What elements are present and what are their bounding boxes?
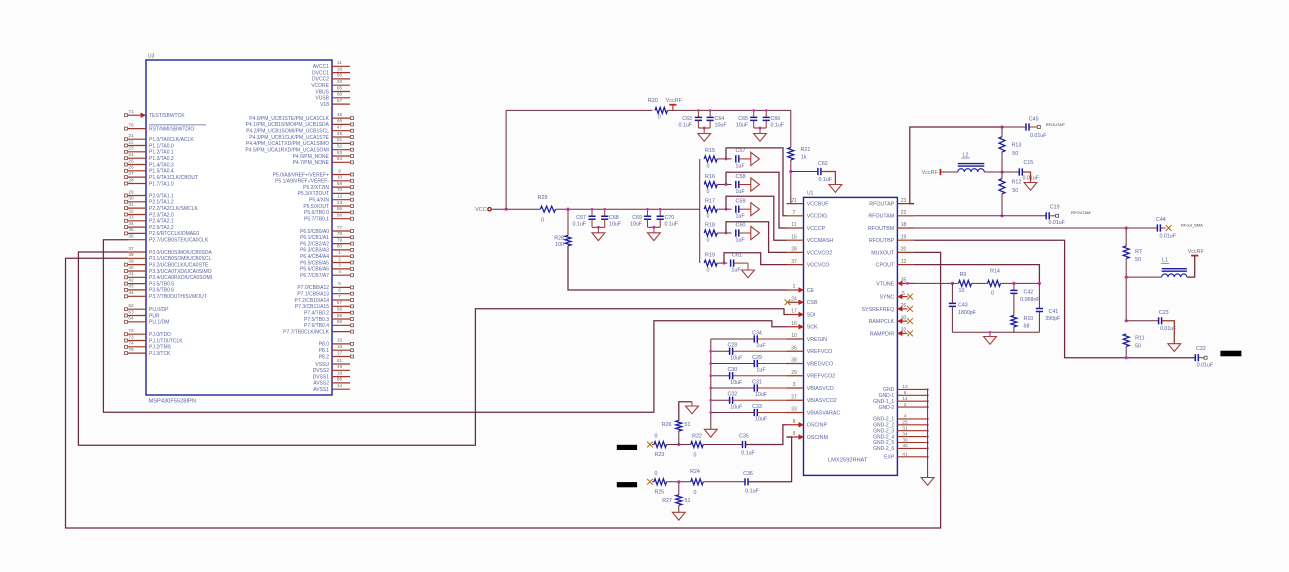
svg-text:42: 42 — [128, 277, 134, 282]
svg-text:0: 0 — [707, 268, 710, 274]
svg-text:34: 34 — [902, 431, 908, 436]
svg-text:29: 29 — [128, 189, 134, 194]
svg-text:15: 15 — [337, 338, 343, 343]
svg-text:29: 29 — [791, 370, 797, 376]
svg-text:P4.3/PM_UCB1CLK/PM_UCA1STE: P4.3/PM_UCB1CLK/PM_UCA1STE — [249, 135, 329, 141]
svg-text:P4.7/PM_NONE: P4.7/PM_NONE — [293, 160, 330, 166]
svg-text:67: 67 — [337, 98, 343, 103]
svg-text:P2.4/TA2.1: P2.4/TA2.1 — [149, 219, 174, 225]
svg-text:C35: C35 — [739, 434, 749, 440]
svg-text:VBUS: VBUS — [315, 89, 329, 95]
svg-text:0: 0 — [655, 434, 658, 440]
wire R26 to ground — [679, 402, 692, 421]
wire P3.1 to MUXOUT net — [66, 252, 941, 528]
VCC bypass bus vertical — [699, 159, 701, 263]
MCU U3 MSP430F5528IPN — [125, 54, 354, 405]
svg-text:39: 39 — [902, 437, 908, 442]
wire C63 C64 ground join — [698, 127, 710, 129]
svg-text:45: 45 — [337, 112, 343, 117]
svg-text:73: 73 — [128, 334, 134, 339]
svg-text:P5.6/TB0.0: P5.6/TB0.0 — [304, 210, 329, 216]
svg-text:GND-2_6: GND-2_6 — [873, 446, 894, 452]
power flag VccRF top — [672, 105, 674, 111]
svg-text:TEST/SBWTCK: TEST/SBWTCK — [149, 113, 185, 119]
svg-text:1: 1 — [338, 250, 341, 255]
svg-text:R18: R18 — [705, 222, 715, 228]
svg-text:35: 35 — [128, 227, 134, 232]
ground rotated — [751, 152, 760, 165]
svg-text:53: 53 — [337, 150, 343, 155]
svg-text:76: 76 — [128, 122, 134, 127]
wire RFOUTAM — [914, 215, 1046, 217]
svg-text:10uF: 10uF — [755, 392, 768, 398]
resistor R25 0 — [652, 481, 654, 483]
svg-text:P7.0/CB8/A12: P7.0/CB8/A12 — [297, 285, 329, 291]
ground — [759, 128, 761, 134]
pad RFOUTAM — [1056, 214, 1059, 217]
svg-text:10uF: 10uF — [730, 404, 743, 410]
svg-text:P7.6/TB0.4: P7.6/TB0.4 — [304, 323, 329, 329]
svg-text:22: 22 — [128, 139, 134, 144]
svg-text:C65: C65 — [738, 116, 748, 122]
svg-text:R29: R29 — [538, 195, 548, 201]
svg-text:C29: C29 — [752, 355, 762, 361]
svg-text:50: 50 — [337, 73, 343, 78]
svg-text:C44: C44 — [1156, 217, 1166, 223]
svg-text:C15: C15 — [1024, 160, 1034, 166]
connector bar RFout — [1220, 351, 1241, 357]
svg-text:5: 5 — [338, 281, 341, 286]
ground — [829, 185, 842, 193]
svg-text:11: 11 — [337, 60, 342, 65]
svg-text:P6.3/CB3/A3: P6.3/CB3/A3 — [300, 248, 329, 254]
svg-text:C68: C68 — [609, 215, 619, 221]
svg-text:C41: C41 — [1049, 309, 1059, 315]
svg-text:1uF: 1uF — [731, 268, 741, 274]
junction CPOUT node — [1038, 282, 1041, 285]
connector bar OSCinM — [617, 482, 637, 487]
svg-text:R9: R9 — [960, 272, 967, 278]
wire C69 C70 ground join — [648, 226, 661, 228]
wire R29 to VCC bus — [556, 208, 700, 210]
svg-text:PJ.1/TDI/TCLK: PJ.1/TDI/TCLK — [149, 338, 183, 344]
svg-text:GND-2: GND-2 — [879, 405, 895, 411]
svg-text:6: 6 — [338, 288, 341, 293]
svg-text:1800pF: 1800pF — [958, 310, 977, 316]
svg-text:R10: R10 — [1024, 316, 1034, 322]
connector bar OSCinP — [617, 445, 637, 450]
svg-text:P1.6/TA1CLK/CBOUT: P1.6/TA1CLK/CBOUT — [149, 175, 198, 181]
capacitor C60 1uF — [736, 229, 739, 236]
resistor R21 1k vertical — [790, 110, 792, 147]
svg-text:P4.2/PM_UCB1SOMI/PM_UCB1SCL: P4.2/PM_UCB1SOMI/PM_UCB1SCL — [246, 129, 329, 135]
svg-text:P1.3/TA0.2: P1.3/TA0.2 — [149, 156, 174, 162]
svg-text:P4.6/PM_NONE: P4.6/PM_NONE — [293, 154, 330, 160]
capacitor C61 1uF — [731, 260, 734, 267]
svg-text:41: 41 — [128, 271, 134, 276]
svg-text:0.01uF: 0.01uF — [1023, 176, 1040, 182]
svg-text:70: 70 — [337, 187, 343, 192]
svg-text:58: 58 — [337, 306, 343, 311]
svg-text:12: 12 — [337, 194, 343, 199]
svg-text:P1.4/TA0.3: P1.4/TA0.3 — [149, 162, 174, 168]
svg-text:P4.5/PM_UCA1RXD/PM_UCA1SOMI: P4.5/PM_UCA1RXD/PM_UCA1SOMI — [245, 148, 329, 154]
svg-text:68: 68 — [337, 377, 343, 382]
svg-text:SDI: SDI — [807, 312, 816, 318]
svg-text:23: 23 — [901, 198, 907, 204]
svg-text:12: 12 — [901, 259, 907, 265]
svg-text:3: 3 — [793, 382, 796, 388]
svg-text:VBIASVCO: VBIASVCO — [807, 386, 834, 392]
junction — [677, 443, 680, 446]
svg-text:VBIASVCO2: VBIASVCO2 — [807, 398, 837, 404]
svg-text:51: 51 — [337, 137, 343, 142]
svg-text:P8.2: P8.2 — [319, 354, 330, 360]
capacitor C69 10uF — [647, 209, 649, 216]
svg-text:2: 2 — [338, 256, 341, 261]
capacitor C31 10uF — [711, 387, 755, 389]
svg-text:DVCC1: DVCC1 — [312, 70, 329, 76]
svg-text:P4.4/PM_UCA1TXD/PM_UCA1SIMO: P4.4/PM_UCA1TXD/PM_UCA1SIMO — [246, 141, 329, 147]
capacitor C41 390pF — [1038, 283, 1040, 308]
loop filter ground rail — [952, 331, 1039, 333]
wire C67 C68 ground join — [592, 226, 605, 228]
svg-text:65: 65 — [337, 85, 343, 90]
svg-text:P5.5/XOUT: P5.5/XOUT — [303, 204, 329, 210]
pad RFout bottom — [1204, 356, 1207, 359]
svg-text:MSP430F5528IPN: MSP430F5528IPN — [149, 399, 196, 405]
power flag VccRF right — [1191, 255, 1198, 257]
svg-text:15: 15 — [791, 234, 797, 240]
svg-text:PJ.2/TMS: PJ.2/TMS — [149, 345, 172, 351]
svg-text:PU.0/DP: PU.0/DP — [149, 307, 169, 313]
svg-text:21: 21 — [128, 133, 134, 138]
svg-text:VBIASVARAC: VBIASVARAC — [807, 410, 841, 416]
svg-text:0: 0 — [707, 189, 710, 195]
svg-text:C28: C28 — [727, 343, 737, 349]
svg-text:4: 4 — [338, 269, 341, 274]
ground — [921, 478, 934, 486]
svg-text:P7.3/CB11/A15: P7.3/CB11/A15 — [295, 304, 329, 310]
svg-text:P2.0/TA1.1: P2.0/TA1.1 — [149, 193, 174, 199]
svg-text:36: 36 — [128, 234, 134, 239]
svg-text:10uF: 10uF — [630, 222, 643, 228]
svg-text:R19: R19 — [705, 252, 715, 258]
svg-text:54: 54 — [337, 156, 343, 161]
svg-text:C22: C22 — [1196, 346, 1206, 352]
svg-text:28: 28 — [128, 177, 134, 182]
svg-text:P5.4/XIN: P5.4/XIN — [309, 198, 329, 204]
svg-text:10: 10 — [959, 288, 965, 294]
capacitor C42 0.068nF — [1013, 283, 1015, 290]
wire top rail to R20 — [506, 109, 652, 111]
svg-text:50: 50 — [1012, 188, 1018, 194]
svg-text:VTUNE: VTUNE — [876, 281, 894, 287]
svg-text:3: 3 — [338, 263, 341, 268]
svg-text:PUR: PUR — [149, 313, 160, 319]
svg-text:U3: U3 — [148, 54, 155, 60]
svg-text:R11: R11 — [1135, 336, 1145, 342]
pad RFOUTAP — [1037, 126, 1040, 129]
svg-text:VCCMASH: VCCMASH — [807, 238, 834, 244]
svg-text:14: 14 — [337, 383, 343, 388]
svg-text:RFOUTAM: RFOUTAM — [868, 214, 894, 220]
svg-text:DVSS1: DVSS1 — [313, 374, 330, 380]
node after R19 — [717, 262, 727, 264]
svg-text:C19: C19 — [1050, 205, 1060, 211]
svg-text:VCCBUF: VCCBUF — [807, 202, 830, 208]
svg-text:24: 24 — [791, 296, 797, 302]
svg-text:0: 0 — [707, 163, 710, 169]
ground — [691, 402, 693, 406]
svg-text:16: 16 — [791, 321, 797, 327]
svg-text:25: 25 — [902, 420, 908, 425]
svg-text:P3.6/TB0.6: P3.6/TB0.6 — [149, 288, 174, 294]
capacitor C32 10uF — [711, 399, 730, 401]
junction C62 tap — [789, 170, 792, 173]
svg-text:VccRF: VccRF — [922, 170, 939, 176]
ground — [1024, 183, 1037, 191]
resistor R14 0 — [988, 280, 1001, 286]
junction — [677, 480, 680, 483]
svg-text:17: 17 — [337, 350, 343, 355]
svg-text:SYNC: SYNC — [879, 295, 894, 301]
svg-text:P2.3/TA2.0: P2.3/TA2.0 — [149, 212, 174, 218]
svg-text:22: 22 — [901, 210, 907, 216]
cap bank ground bus — [710, 339, 712, 429]
svg-text:P2.6/RTCCLK/DMAE0: P2.6/RTCCLK/DMAE0 — [149, 231, 199, 237]
wire R19 node loop to U1 pin 37 — [724, 253, 787, 265]
svg-text:62: 62 — [128, 303, 134, 308]
svg-text:VREFVCO2: VREFVCO2 — [807, 374, 836, 380]
svg-text:VCC: VCC — [475, 207, 486, 213]
svg-text:P3.4/UCA0RXD/UCA0SOMI: P3.4/UCA0RXD/UCA0SOMI — [149, 275, 212, 281]
wire C35 to OSCINP pin 8 — [746, 425, 787, 445]
svg-text:P3.1/UCB0SOMI/UCB0SCL: P3.1/UCB0SOMI/UCB0SCL — [149, 256, 211, 262]
capacitor C62 0.1uF — [791, 171, 818, 173]
svg-text:0.1uF: 0.1uF — [771, 123, 785, 129]
svg-text:1uF: 1uF — [756, 368, 766, 374]
svg-text:55: 55 — [337, 206, 343, 211]
svg-text:C36: C36 — [743, 471, 753, 477]
capacitor C70 0.1uF — [659, 209, 661, 216]
svg-text:C67: C67 — [576, 215, 586, 221]
svg-text:VUSB: VUSB — [315, 96, 329, 102]
resistor R12 50 vertical — [1001, 172, 1003, 179]
resistor R18 0 — [704, 230, 717, 236]
capacitor C57 1uF — [736, 155, 739, 162]
svg-text:L1: L1 — [1162, 258, 1168, 264]
svg-text:R15: R15 — [705, 148, 715, 154]
svg-text:10uF: 10uF — [755, 417, 768, 423]
svg-text:OSCINP: OSCINP — [807, 423, 828, 429]
svg-text:0.01uF: 0.01uF — [1197, 363, 1214, 369]
svg-text:25: 25 — [128, 158, 134, 163]
capacitor C29 1uF — [711, 363, 755, 365]
svg-text:P3.2/UCB0CLK/UCA0STE: P3.2/UCB0CLK/UCA0STE — [149, 262, 209, 268]
svg-text:39: 39 — [128, 258, 134, 263]
wire P3.0 to SDI net — [78, 252, 786, 445]
svg-text:0: 0 — [707, 237, 710, 243]
wire VCC riser to VccRF rail — [505, 110, 507, 209]
svg-text:78: 78 — [337, 231, 343, 236]
svg-text:1: 1 — [793, 284, 796, 290]
svg-text:38: 38 — [791, 358, 797, 364]
svg-text:47: 47 — [337, 125, 343, 130]
pin 71 input arrow — [141, 113, 146, 118]
svg-text:21: 21 — [791, 198, 797, 204]
svg-text:31: 31 — [128, 202, 134, 207]
wire RFOUTAP riser — [910, 127, 1002, 204]
ground — [704, 429, 717, 437]
ground — [653, 227, 655, 233]
svg-text:50: 50 — [1135, 257, 1141, 263]
svg-text:AVSS1: AVSS1 — [313, 387, 329, 393]
capacitor C64 10uF — [709, 110, 711, 117]
svg-text:VCCDIG: VCCDIG — [807, 214, 828, 220]
svg-text:C60: C60 — [736, 222, 746, 228]
svg-text:34: 34 — [128, 221, 134, 226]
resistor R27 51 vertical — [678, 482, 680, 495]
svg-text:R28: R28 — [554, 236, 564, 242]
svg-text:74: 74 — [128, 341, 134, 346]
svg-text:MUXOUT: MUXOUT — [871, 250, 895, 256]
svg-text:18: 18 — [901, 222, 907, 228]
svg-text:1uF: 1uF — [756, 343, 766, 349]
svg-text:64: 64 — [128, 316, 134, 321]
svg-text:C34: C34 — [752, 330, 762, 336]
svg-text:16: 16 — [337, 344, 343, 349]
capacitor C28 10uF — [711, 350, 730, 352]
svg-text:C30: C30 — [727, 367, 737, 373]
svg-text:0.068nF: 0.068nF — [1020, 297, 1040, 303]
junction C23 node — [1125, 319, 1128, 322]
svg-text:27: 27 — [128, 171, 134, 176]
ground rotated — [751, 226, 760, 239]
node after R15 — [717, 158, 731, 160]
svg-text:51: 51 — [685, 498, 691, 504]
svg-text:10uF: 10uF — [730, 380, 743, 386]
svg-text:50: 50 — [1135, 344, 1141, 350]
svg-text:P6.1/CB1/A1: P6.1/CB1/A1 — [300, 235, 329, 241]
ground rotated — [751, 203, 760, 216]
svg-text:10uF: 10uF — [736, 123, 749, 129]
node after R18 — [717, 232, 731, 234]
no-connect X RFout SMA — [1166, 225, 1172, 231]
junction L1 node — [1125, 276, 1128, 279]
svg-text:43: 43 — [128, 284, 134, 289]
wire R24 to C36 — [703, 481, 745, 483]
svg-text:0: 0 — [991, 291, 994, 297]
svg-text:AVSS2: AVSS2 — [313, 381, 329, 387]
svg-text:P1.2/TA0.1: P1.2/TA0.1 — [149, 150, 174, 156]
svg-text:P8.1: P8.1 — [319, 348, 330, 354]
wire R16 node to U1 pin — [726, 172, 787, 228]
svg-text:40: 40 — [902, 443, 908, 448]
capacitor C45 0.01uF — [1002, 126, 1026, 128]
wire RFOUTBM — [914, 227, 1157, 229]
svg-text:P2.1/TA1.2: P2.1/TA1.2 — [149, 200, 174, 206]
svg-text:7: 7 — [793, 210, 796, 216]
wire R15 node to U1 pin — [726, 148, 787, 216]
capacitor C66 0.1uF — [765, 110, 767, 117]
svg-text:P3.0/UCB0SIMO/UCB0SDA: P3.0/UCB0SIMO/UCB0SDA — [149, 250, 212, 256]
svg-text:P4.0/PM_UCB1STE/PM_UCA1CLK: P4.0/PM_UCB1STE/PM_UCA1CLK — [249, 116, 329, 122]
svg-text:1uF: 1uF — [735, 214, 745, 220]
ground — [672, 512, 685, 520]
svg-text:P1.0/TA0CLK/ACLK: P1.0/TA0CLK/ACLK — [149, 137, 194, 143]
wire R20 to VccRF flag — [667, 109, 790, 111]
svg-text:0: 0 — [658, 115, 661, 121]
junction L2 node — [1000, 170, 1003, 173]
svg-text:9: 9 — [338, 168, 341, 173]
capacitor C43 1800pF — [951, 283, 953, 303]
svg-text:10uF: 10uF — [609, 222, 622, 228]
svg-text:9: 9 — [793, 431, 796, 437]
svg-text:80: 80 — [337, 244, 343, 249]
svg-text:P3.7/TB0OUTH/SVMOUT: P3.7/TB0OUTH/SVMOUT — [149, 294, 207, 300]
wire P2.7 to SCK net — [103, 240, 786, 413]
svg-text:R17: R17 — [705, 199, 715, 205]
resistor R29 0 — [540, 206, 555, 212]
node after R17 — [717, 208, 731, 210]
svg-text:390pF: 390pF — [1045, 316, 1061, 322]
svg-text:C43: C43 — [958, 303, 968, 309]
svg-text:VccRF: VccRF — [1188, 249, 1205, 255]
svg-text:0: 0 — [694, 490, 697, 496]
svg-text:2: 2 — [904, 402, 907, 407]
node after R16 — [717, 184, 731, 186]
svg-text:P7.5/TB0.3: P7.5/TB0.3 — [304, 317, 329, 323]
svg-text:P6.6/CB6/A6: P6.6/CB6/A6 — [300, 267, 329, 273]
svg-text:P5.3/XT2OUT: P5.3/XT2OUT — [298, 191, 329, 197]
svg-text:C31: C31 — [752, 379, 762, 385]
svg-text:0: 0 — [655, 471, 658, 477]
svg-text:68: 68 — [1024, 324, 1030, 330]
svg-text:0.1uF: 0.1uF — [572, 222, 586, 228]
capacitor C15 0.01uF — [1002, 171, 1019, 173]
svg-text:RFOUTAP: RFOUTAP — [869, 202, 894, 208]
svg-text:PU.1/DM: PU.1/DM — [149, 320, 169, 326]
svg-text:1uF: 1uF — [735, 237, 745, 243]
capacitor C59 1uF — [736, 206, 739, 213]
svg-text:P8.0: P8.0 — [319, 342, 330, 348]
svg-text:0.01uF: 0.01uF — [1030, 133, 1047, 139]
resistor R26 51 vertical — [678, 431, 680, 445]
svg-text:C66: C66 — [771, 116, 781, 122]
resistor R20 0 — [655, 107, 667, 113]
svg-text:R23: R23 — [655, 452, 665, 458]
svg-text:P1.1/TA0.0: P1.1/TA0.0 — [149, 143, 174, 149]
wire C36 to OSCINM pin 9 — [749, 437, 792, 482]
svg-text:49: 49 — [337, 364, 343, 369]
svg-text:63: 63 — [128, 309, 134, 314]
svg-text:41: 41 — [902, 452, 908, 457]
svg-text:37: 37 — [791, 259, 797, 265]
capacitor C19 0.01uF — [1046, 212, 1049, 219]
svg-text:P3.5/TB0.5: P3.5/TB0.5 — [149, 281, 174, 287]
capacitor C68 10uF — [604, 209, 606, 216]
svg-text:C58: C58 — [736, 174, 746, 180]
svg-text:C62: C62 — [818, 161, 828, 167]
resistor R24 0 — [691, 479, 703, 485]
svg-text:U1: U1 — [807, 191, 814, 197]
svg-text:SYSREFREQ: SYSREFREQ — [862, 307, 895, 313]
svg-text:VCCVCO2: VCCVCO2 — [807, 250, 833, 256]
svg-text:R25: R25 — [655, 489, 665, 495]
svg-text:C57: C57 — [736, 148, 746, 154]
wire RFOUTBP to bottom — [914, 240, 1195, 358]
